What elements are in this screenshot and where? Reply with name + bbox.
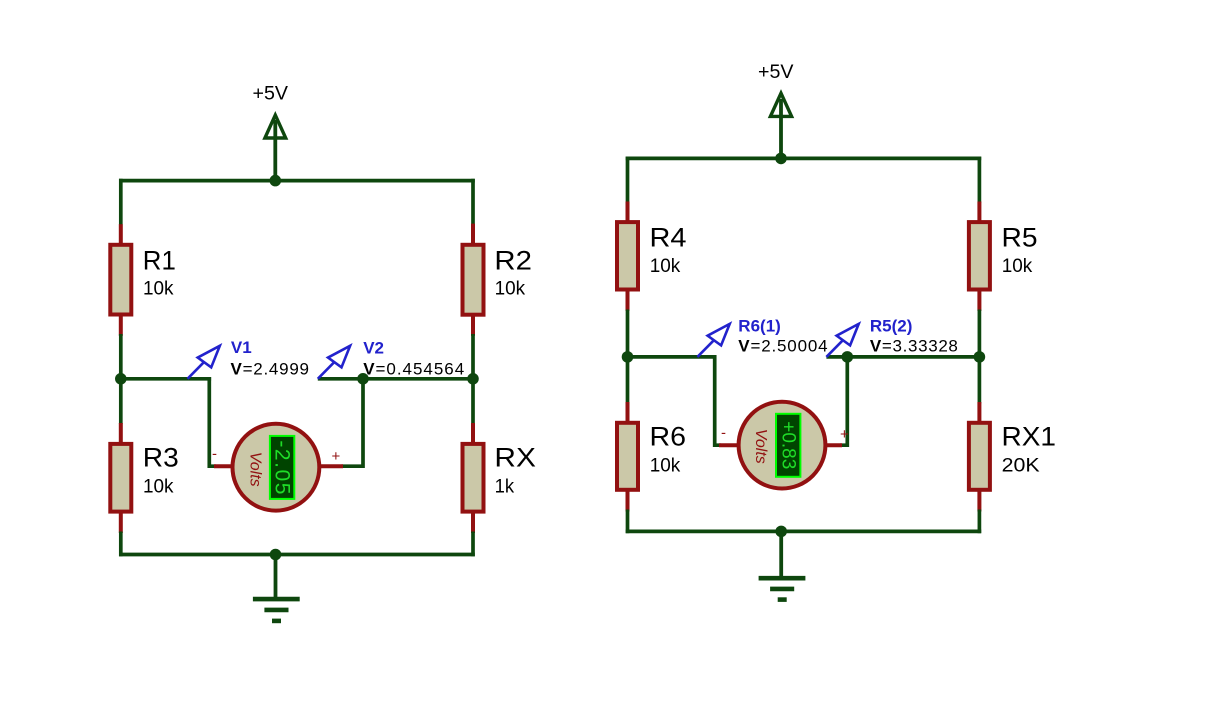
- wire: top rail (right): [626, 157, 982, 161]
- resistor R2: [463, 224, 484, 336]
- wire: meter minus drop (left): [209, 377, 216, 466]
- svg-text:-2.05: -2.05: [271, 440, 294, 494]
- wire: left rail upper segment (right): [626, 157, 630, 203]
- svg-text:10k: 10k: [650, 456, 681, 477]
- svg-text:+0.83: +0.83: [778, 421, 799, 469]
- svg-text:Volts: Volts: [247, 452, 264, 487]
- svg-text:R6(1): R6(1): [738, 317, 781, 336]
- wire: right rail mid segment (right): [978, 310, 982, 404]
- svg-text:10k: 10k: [143, 279, 174, 300]
- wire: left rail bottom segment (left): [119, 532, 123, 557]
- node: bottom rail junction (left): [270, 549, 282, 561]
- wire: meter plus drop (right): [840, 357, 847, 445]
- svg-text:V2: V2: [363, 339, 384, 358]
- svg-text:R2: R2: [494, 245, 531, 275]
- node: bridge right junction (left): [467, 373, 479, 385]
- wire: top rail (left): [119, 179, 475, 183]
- node: bottom rail junction (right): [775, 526, 787, 538]
- wire: bridge left horizontal (left): [121, 377, 211, 381]
- wire: bridge right horizontal (right): [826, 355, 981, 359]
- wire: bottom rail (right): [626, 530, 982, 534]
- probe V1 arrow: [188, 346, 220, 379]
- wire: left rail mid segment (left): [119, 334, 123, 381]
- ground (left): [253, 555, 300, 621]
- wire: right rail bottom segment (right): [978, 510, 982, 534]
- svg-text:V=0.454564: V=0.454564: [363, 359, 464, 378]
- probe R6(1) arrow: [697, 324, 729, 357]
- wire: left rail lower segment (right): [626, 355, 630, 403]
- wire: left rail upper segment (left): [119, 179, 123, 225]
- svg-text:R4: R4: [650, 223, 687, 253]
- svg-text:RX1: RX1: [1002, 421, 1057, 451]
- resistor RX: [463, 423, 484, 533]
- svg-text:V=2.4999: V=2.4999: [231, 359, 310, 378]
- power symbol +5V arrow (left): [265, 115, 286, 181]
- node: meter plus junction (left): [357, 373, 369, 385]
- wire: bottom rail (left): [119, 553, 475, 557]
- node: meter plus junction (right): [842, 351, 854, 363]
- resistor R4: [617, 202, 638, 312]
- wire: left rail bottom segment (right): [626, 510, 630, 534]
- wire: left rail lower segment (left): [119, 377, 123, 424]
- svg-text:V=2.50004: V=2.50004: [738, 337, 827, 356]
- svg-text:+: +: [332, 448, 341, 465]
- voltmeter (right): [719, 402, 842, 489]
- power symbol +5V arrow (right): [770, 93, 791, 158]
- node: bridge left junction (left): [115, 373, 127, 385]
- svg-text:R5(2): R5(2): [870, 317, 913, 336]
- voltmeter (left): [214, 424, 343, 511]
- node: bridge left junction (right): [622, 351, 634, 363]
- svg-text:+: +: [840, 426, 849, 443]
- wire: meter plus drop (left): [342, 379, 364, 466]
- svg-text:20K: 20K: [1002, 456, 1040, 477]
- svg-text:10k: 10k: [1002, 256, 1033, 277]
- ground (right): [759, 531, 806, 599]
- node: top rail junction (left): [270, 175, 282, 187]
- resistor R3: [110, 423, 131, 533]
- svg-text:10k: 10k: [143, 476, 174, 497]
- svg-text:R3: R3: [143, 442, 179, 472]
- resistor R6: [617, 402, 638, 512]
- wire: right rail bottom segment (left): [471, 532, 475, 557]
- wire: meter minus drop (right): [715, 355, 721, 445]
- svg-text:+5V: +5V: [253, 83, 289, 104]
- wire: left rail mid segment (right): [626, 310, 630, 359]
- svg-text:R5: R5: [1002, 223, 1038, 253]
- wire: right rail upper segment (right): [978, 157, 982, 203]
- voltmeter display (left): [270, 436, 294, 499]
- probe V2 arrow: [318, 346, 350, 379]
- svg-text:10k: 10k: [495, 279, 526, 300]
- svg-text:R6: R6: [650, 421, 687, 451]
- resistor RX1: [969, 402, 990, 512]
- svg-text:+5V: +5V: [758, 62, 794, 83]
- svg-text:V1: V1: [231, 338, 252, 357]
- wire: right rail mid segment (left): [471, 334, 475, 424]
- svg-text:10k: 10k: [650, 256, 681, 277]
- node: bridge right junction (right): [974, 351, 986, 363]
- resistor R1: [110, 224, 131, 336]
- svg-text:1k: 1k: [495, 476, 515, 497]
- probe R5(2) arrow: [826, 324, 858, 357]
- svg-text:Volts: Volts: [752, 429, 769, 464]
- wire: bridge right horizontal (left): [318, 377, 475, 381]
- svg-text:R1: R1: [143, 245, 176, 275]
- resistor R5: [969, 202, 990, 312]
- svg-text:-: -: [721, 425, 726, 442]
- svg-text:V=3.33328: V=3.33328: [870, 337, 958, 356]
- wire: right rail upper segment (left): [471, 179, 475, 225]
- wire: bridge left horizontal (right): [628, 355, 717, 359]
- voltmeter display (right): [776, 414, 800, 477]
- svg-text:RX: RX: [494, 442, 536, 472]
- svg-text:-: -: [212, 446, 217, 463]
- node: top rail junction (right): [775, 153, 787, 165]
